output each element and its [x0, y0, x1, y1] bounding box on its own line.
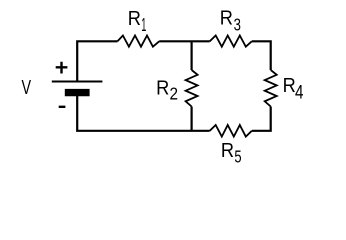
label R4 [283, 74, 296, 97]
battery V: plus sign [56, 62, 68, 74]
node A: junction wire from top rail down to R2 [191, 41, 193, 70]
wire: top rail between R1 and R3 (through node A) [159, 40, 210, 42]
wire: right rail below R4 to bottom-right corner, left to R5 [252, 107, 272, 132]
resistor R1 [118, 36, 160, 47]
svg-text:R: R [221, 139, 234, 162]
node B: junction wire from R2 down to bottom rail [191, 107, 193, 131]
svg-text:V: V [21, 75, 31, 98]
wire: left rail top (battery + to top-left corner) and top rail to R1 [76, 41, 117, 81]
wire: bottom rail R5 to bottom-left corner (through node B), up to battery - plate [76, 96, 210, 132]
svg-text:R: R [128, 7, 141, 30]
resistor R2 [186, 70, 198, 107]
label R2 [156, 76, 169, 99]
wire: top rail R3 to top-right corner, down right rail to R4 [252, 40, 271, 70]
battery V: minus sign [59, 106, 66, 108]
resistor R4 [265, 70, 277, 107]
svg-text:R: R [220, 7, 233, 30]
svg-text:5: 5 [234, 148, 241, 167]
svg-text:1: 1 [141, 16, 146, 36]
svg-text:R: R [156, 76, 169, 99]
label R1 [128, 7, 141, 30]
label V [21, 75, 31, 98]
resistor R3 [210, 36, 252, 47]
battery V: negative plate (short thick) [65, 89, 90, 96]
svg-text:2: 2 [169, 83, 178, 103]
label R3 [220, 7, 233, 30]
battery V: positive plate (long thin) [52, 81, 103, 83]
label R5 [221, 139, 234, 162]
svg-text:3: 3 [234, 16, 242, 35]
svg-text:R: R [283, 74, 296, 97]
resistor R5 [210, 125, 252, 137]
svg-text:4: 4 [295, 81, 304, 103]
